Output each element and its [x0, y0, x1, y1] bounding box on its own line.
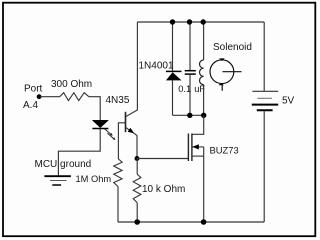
top rail wire: [137, 21, 264, 23]
svg-text:300 Ohm: 300 Ohm: [51, 79, 92, 90]
node emitter junction: [135, 156, 140, 161]
svg-text:5V: 5V: [282, 96, 295, 107]
diode D1 1N4001: [172, 22, 174, 71]
wire R1 to LED anode: [89, 97, 100, 121]
node L1 top: [201, 19, 206, 24]
light emission arrows: [105, 129, 116, 140]
wire port to R1: [40, 96, 60, 98]
solenoid coil L1: [203, 22, 205, 60]
node C1 top: [187, 19, 192, 24]
svg-text:A.4: A.4: [23, 100, 38, 111]
svg-text:1N4001: 1N4001: [139, 60, 174, 71]
node L1 bottom / drain: [201, 113, 206, 118]
wire R2 to bottom rail: [117, 187, 119, 223]
node D1 top: [170, 19, 175, 24]
phototransistor of U1 (4N35): [126, 110, 138, 135]
svg-text:1M Ohm: 1M Ohm: [76, 174, 112, 184]
wire gate lead: [137, 158, 188, 160]
battery B1 5V: [263, 22, 265, 91]
resistor R2 1M Ohm: [114, 159, 122, 187]
LED of optocoupler U1 (4N35): [92, 120, 108, 127]
mid wire (D1, C1, L1 bottoms to drain): [173, 114, 204, 116]
svg-text:0.1: 0.1: [178, 84, 191, 94]
node Port A.4: [37, 94, 42, 99]
svg-text:4N35: 4N35: [106, 95, 130, 106]
svg-text:10 k Ohm: 10 k Ohm: [142, 184, 185, 195]
transistor Q1 BUZ73 MOSFET: [188, 115, 203, 222]
ground symbol (MCU ground): [44, 176, 71, 185]
svg-text:Solenoid: Solenoid: [213, 42, 252, 53]
wire LED cathode to MCU ground: [58, 129, 100, 176]
wire emitter down to node: [136, 135, 138, 158]
svg-text:MCU ground: MCU ground: [35, 159, 92, 170]
node source bottom: [201, 219, 207, 225]
node R3 bottom: [134, 219, 140, 225]
wire collector up to top rail: [136, 22, 138, 110]
node C1 bottom: [187, 113, 192, 118]
capacitor C1 0.1 uF: [189, 22, 191, 70]
svg-text:Port: Port: [24, 84, 43, 95]
resistor R1 300 Ohm: [60, 93, 89, 101]
resistor R3 10 k Ohm: [136, 159, 138, 175]
solenoid body (circle with plunger arm): [210, 58, 242, 90]
wire base to R2: [118, 123, 125, 159]
svg-text:BUZ73: BUZ73: [210, 145, 239, 156]
bottom rail wire: [118, 221, 264, 223]
